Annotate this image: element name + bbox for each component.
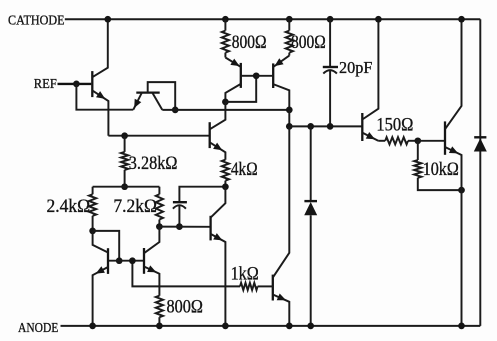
transistor Q5 [210, 102, 226, 160]
transistor Q3 [225, 58, 256, 102]
diode D2 [474, 137, 487, 151]
svg-text:2.4kΩ: 2.4kΩ [47, 196, 91, 217]
transistor Q9 [273, 126, 290, 326]
wire R8 node to Q7 base [418, 140, 445, 142]
junction dot R8-R9 node [414, 137, 421, 144]
resistor R1 800ohm [222, 19, 229, 57]
resistor R10 1kohm [240, 283, 273, 290]
junction dot R3 top [121, 132, 128, 139]
diode D1 [304, 126, 317, 326]
transistor Q2 (diode-connected) [133, 82, 175, 110]
resistor R3 3.28kohm [121, 136, 128, 187]
junction dot Q10 emitter on anode rail [89, 323, 96, 330]
junction dot mid rail left [286, 123, 293, 130]
junction dot Q2 base-collector tie [172, 107, 179, 114]
svg-text:800Ω: 800Ω [167, 296, 203, 317]
junction dot Q7 collector on cathode rail [458, 16, 465, 23]
svg-text:800Ω: 800Ω [291, 32, 326, 53]
svg-text:20pF: 20pF [339, 58, 372, 77]
junction dot C2 bottom [176, 223, 183, 230]
junction dot Q11 base branch [129, 257, 136, 264]
junction dot R5 bottom [89, 228, 96, 235]
wire Q1 emitter node to Q5 base [108, 135, 209, 137]
wire mid rail to Q6 base [289, 125, 362, 127]
wire Q10-Q11 base row [108, 260, 144, 262]
svg-text:1kΩ: 1kΩ [231, 264, 259, 285]
junction dot C1 bottom [327, 123, 334, 130]
svg-text:4kΩ: 4kΩ [231, 159, 258, 180]
wire Q3 base-collector tie loop [225, 76, 256, 102]
wire R5 bottom to Q10 base [93, 231, 120, 261]
junction dot R7 bottom on anode rail [156, 323, 163, 330]
wire Q2 collector rail to Q4 collector [162, 109, 289, 111]
svg-text:CATHODE: CATHODE [8, 13, 65, 28]
svg-text:150Ω: 150Ω [376, 116, 413, 136]
junction dot Q6 collector on cathode rail [375, 16, 382, 23]
resistor R2 800ohm [286, 19, 293, 55]
junction dot R9 bottom on Q7 emitter [458, 187, 465, 194]
transistor Q4 [256, 56, 289, 110]
svg-text:REF: REF [34, 77, 57, 92]
resistor R7 800ohm [156, 296, 163, 326]
resistor R6 7.2kohm [156, 187, 163, 227]
wire anode bottom rail [61, 325, 481, 327]
junction dot Q8 emitter on anode rail [222, 323, 229, 330]
junction dot R4 bottom [222, 183, 229, 190]
junction dot Q9 emitter on anode rail [286, 323, 293, 330]
junction dot R3 bottom [121, 183, 128, 190]
wire 2.4k-7.2k top link [93, 186, 160, 188]
wire right edge vertical [479, 19, 481, 326]
transistor Q7 [445, 19, 462, 326]
svg-text:7.2kΩ: 7.2kΩ [113, 196, 157, 217]
wire Q4 node down [288, 110, 290, 127]
wire REF to Q1 base [58, 81, 92, 88]
resistor R8 150ohm [378, 137, 418, 144]
transistor Q10 (mirrored) [93, 231, 108, 326]
resistor R5 2.4kohm [89, 187, 96, 231]
transistor Q8 [211, 187, 226, 326]
junction dot D1 top [307, 123, 314, 130]
resistor R4 4kohm [222, 160, 229, 187]
transistor Q11 [144, 227, 159, 296]
junction dot R1 top on cathode rail [222, 16, 229, 23]
wire Q11 base branch down [132, 261, 240, 287]
transistor Q1 [92, 19, 108, 136]
transistor Q6 [362, 19, 378, 141]
junction dot D1 anode on anode rail [307, 323, 314, 330]
resistor R9 10kohm [414, 141, 461, 190]
wire REF down to left rail [76, 84, 133, 110]
wire Q11 collector row to Q8 base [159, 226, 210, 228]
junction dot Q7 emitter on anode rail [458, 323, 465, 330]
junction dot Q3 collector node [222, 99, 229, 106]
wire cathode top rail [65, 18, 481, 20]
capacitor C1 20pF [323, 19, 338, 126]
junction dot R2 top on cathode rail [286, 16, 293, 23]
junction dot Q4 collector on rail [286, 107, 293, 114]
junction dot Q3-Q4 base tie [253, 72, 260, 79]
svg-text:ANODE: ANODE [18, 321, 58, 336]
svg-text:3.28kΩ: 3.28kΩ [129, 153, 178, 174]
junction dot C1 top on cathode rail [327, 16, 334, 23]
capacitor C2 [173, 187, 226, 227]
junction dot Q1 collector on cathode rail [104, 16, 111, 23]
svg-text:10kΩ: 10kΩ [423, 159, 459, 180]
junction dot Q10 base [116, 257, 123, 264]
junction dot R6 bottom [156, 223, 163, 230]
svg-text:800Ω: 800Ω [232, 32, 267, 53]
